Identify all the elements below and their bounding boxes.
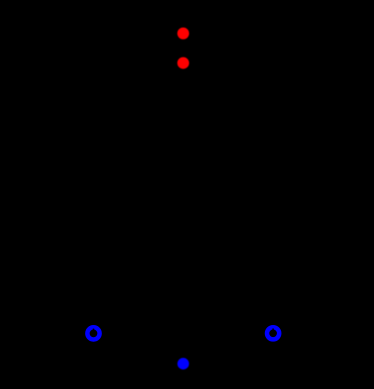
wire: [183, 90, 274, 150]
terminal marker (red) top port terminal: [177, 28, 189, 40]
wire: [184, 332, 274, 335]
wire: [182, 60, 185, 63]
terminal marker (red) bottom port terminal: [177, 57, 189, 69]
wire: [182, 333, 185, 364]
node marker (blue ring) right node: [267, 327, 279, 339]
node marker (blue dot) ground node: [177, 358, 189, 370]
wire: [92, 210, 95, 333]
node marker (blue ring) left node: [87, 327, 99, 339]
resistor R3: [93, 326, 183, 339]
resistor R2: [268, 150, 281, 210]
ground: [172, 363, 195, 382]
wire stub over left node marker: [93, 329, 95, 332]
wire: [182, 33, 185, 36]
wire: [273, 210, 276, 333]
voltage source V1: [171, 36, 195, 60]
wire stub over right node marker: [272, 329, 274, 332]
resistor R1: [87, 150, 100, 210]
wire: [93, 63, 183, 150]
